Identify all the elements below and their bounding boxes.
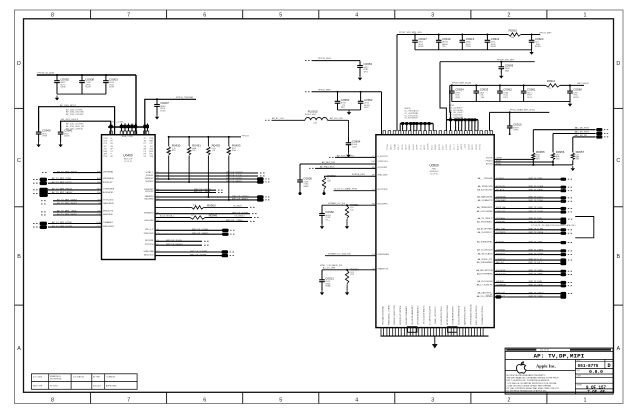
svg-text:B: B [17, 254, 21, 260]
svg-text:AA_0AAVLSKM1: AA_0AAVLSKM1 [477, 196, 493, 199]
svg-text:K6XG9: K6XG9 [486, 158, 493, 160]
wire second cap bank bus [450, 84, 546, 86]
resistor R0950 [322, 174, 336, 189]
svg-text:TPDCENRNC6SUU2B: TPDCENRNC6SUU2B [470, 304, 472, 325]
U0400 top pin comb bus [108, 122, 149, 135]
wire U0400 left pin row 2 [33, 177, 114, 180]
wire U0900 left row 6 with C0950 R0951 [322, 204, 376, 206]
wire cap bank bottom bus [57, 93, 106, 95]
capacitor C0908 [79, 75, 94, 94]
svg-text:MIPI_TX_DRH6: MIPI_TX_DRH6 [529, 250, 544, 252]
svg-text:F168H0P08G7TFXG: F168H0P08G7TFXG [441, 306, 443, 325]
svg-text:MIPI_TX_DNB9: MIPI_TX_DNB9 [529, 296, 544, 298]
svg-text:KM0BK43: KM0BK43 [496, 253, 506, 255]
svg-text:KNMVMHB9: KNMVMHB9 [378, 254, 390, 256]
svg-text:6C4_U: 6C4_U [398, 144, 400, 150]
resistor R0940 [190, 214, 217, 220]
wire U0900 right termination row y=271.3 [476, 269, 572, 273]
svg-text:CPP8: CPP8 [466, 46, 471, 48]
svg-text:_ER: _ER [211, 150, 216, 152]
capacitor C0903 [103, 75, 118, 94]
svg-text:MIPI_DP__4N9S: MIPI_DP__4N9S [194, 191, 210, 193]
svg-text:C: C [616, 158, 620, 164]
svg-text:AP_TO_MIPI_KG30N: AP_TO_MIPI_KG30N [52, 225, 73, 228]
Apple logo [517, 362, 526, 373]
wire U0400 right row D [145, 229, 234, 232]
svg-text:MIPI_DP_6EFET: MIPI_DP_6EFET [232, 199, 249, 201]
wire PP1V8 top-left bus [37, 74, 136, 76]
svg-text:PP1V2: PP1V2 [242, 135, 250, 137]
svg-text:BY THE: BY THE [93, 377, 100, 379]
svg-text:AC8G0PE1: AC8G0PE1 [103, 191, 114, 194]
svg-text:AA_SGMN49TA1: AA_SGMN49TA1 [477, 240, 493, 243]
wire U0400 right row F [145, 240, 209, 242]
svg-text:L2LRBL4X9NRRA85: L2LRBL4X9NRRA85 [405, 305, 408, 325]
svg-text:CGSFDM0B: CGSFDM0B [103, 189, 115, 191]
svg-text:2X79UR7: 2X79UR7 [145, 191, 155, 193]
wire bus drop to comb [396, 35, 398, 132]
svg-text:C0962: C0962 [503, 88, 512, 92]
svg-text:AP_TO_MIPI_7XFKL: AP_TO_MIPI_7XFKL [52, 177, 73, 180]
svg-text:8: 8 [51, 13, 54, 19]
wire top cap bank bottom bus [415, 49, 532, 51]
wire vertical R0956 net [552, 134, 554, 153]
svg-text:3ULSS: 3ULSS [446, 144, 448, 150]
wire C0909 drop [440, 62, 446, 120]
svg-text:64PSP4C: 64PSP4C [145, 178, 154, 180]
svg-text:AP_DET_1V8: AP_DET_1V8 [322, 161, 336, 164]
svg-text:1C6K: 1C6K [352, 146, 357, 148]
svg-text:HGKB5DU: HGKB5DU [144, 212, 154, 214]
svg-text:MIPI_TX_D_61: MIPI_TX_D_61 [529, 259, 544, 261]
svg-text:VT6: VT6 [193, 205, 196, 207]
wire U0400 left pin row 6 [41, 199, 114, 202]
svg-text:PL0910: PL0910 [308, 110, 318, 114]
svg-text:K143L: K143L [431, 145, 433, 150]
svg-text:(1 OF 3): (1 OF 3) [430, 173, 438, 175]
svg-text:PP1V8_S2_AON: PP1V8_S2_AON [38, 72, 55, 75]
connector pad blob rows 4-5 [39, 188, 47, 197]
wire U0400 left pin row 10 [33, 221, 114, 224]
svg-text:ICT STATUS: ICT STATUS [73, 376, 84, 379]
svg-text:0CUGP5F: 0CUGP5F [496, 270, 506, 272]
svg-text:C0905: C0905 [303, 177, 312, 181]
U0900 top pin boxes [383, 131, 493, 135]
op IC U0400 body [102, 135, 156, 260]
capacitor C0951 [335, 92, 350, 110]
svg-text:7R8: 7R8 [150, 156, 153, 158]
svg-text:GSHFHHE: GSHFHHE [496, 285, 506, 287]
svg-text:L48UCGT: L48UCGT [496, 211, 506, 213]
svg-text:AA_BL24P7NMS: AA_BL24P7NMS [477, 228, 493, 231]
svg-text:PP1V8_S2R_MIPI: PP1V8_S2R_MIPI [497, 59, 515, 61]
wire U0400 left pin row 5 [48, 191, 114, 194]
svg-text:MIPI_TX_DK4K: MIPI_TX_DK4K [529, 285, 544, 287]
svg-text:AA_RT3SFHERS: AA_RT3SFHERS [477, 272, 493, 275]
svg-text:TSTTLCED: TSTTLCED [103, 200, 114, 202]
svg-text:APPROVED: APPROVED [106, 384, 117, 387]
svg-text:9A65: 9A65 [505, 69, 509, 72]
svg-text:CT_2L: CT_2L [420, 145, 422, 150]
svg-text:UK9D3: UK9D3 [476, 144, 478, 150]
svg-text:7EAC149K: 7EAC149K [378, 174, 389, 177]
svg-text:PP3V0_TRISTAR: PP3V0_TRISTAR [176, 96, 194, 99]
connector pad left row y=227.1 [40, 225, 47, 229]
svg-text:CFMV: CFMV [513, 130, 519, 132]
svg-text:PR4UG: PR4UG [486, 160, 493, 162]
revision table [32, 374, 138, 390]
svg-text:UXGPKH6: UXGPKH6 [496, 197, 506, 199]
wire MIPI row to pad 3 [573, 136, 596, 138]
svg-text:A: A [17, 346, 21, 352]
svg-text:G79341EP: G79341EP [378, 167, 388, 169]
svg-text:TUHVHAR: TUHVHAR [496, 199, 506, 202]
svg-text:BR3: BR3 [576, 159, 580, 161]
svg-text:9 OF 157: 9 OF 157 [586, 386, 607, 390]
svg-text:EVDX: EVDX [160, 110, 166, 112]
svg-text:7: 7 [127, 13, 130, 19]
svg-text:NHT99: NHT99 [480, 144, 482, 150]
legal notice paragraph [507, 374, 560, 393]
connector pad left row y=223.5 [40, 222, 47, 226]
svg-text:KH2R_NH: KH2R_NH [496, 207, 506, 209]
svg-text:AA_L9_XGMCPK: AA_L9_XGMCPK [477, 284, 493, 287]
svg-text:PP1V2_S2R_MIPI_VDD: PP1V2_S2R_MIPI_VDD [399, 32, 422, 34]
svg-text:SNT EPROM: SNT EPROM [50, 378, 62, 380]
svg-text:CZ_DV_LC_WAKE_HOST: CZ_DV_LC_WAKE_HOST [334, 188, 359, 191]
pull resistor R0430 net [168, 136, 170, 138]
ground [569, 102, 571, 104]
svg-text:AP_TO_MIPI_5HVV5: AP_TO_MIPI_5HVV5 [57, 213, 78, 216]
ground [572, 166, 574, 168]
svg-text:C0903: C0903 [109, 77, 118, 81]
svg-text:AA_E1KU1R35D: AA_E1KU1R35D [477, 188, 493, 191]
svg-text:MU0LUCD: MU0LUCD [144, 254, 154, 256]
svg-text:RUMG: RUMG [535, 46, 541, 48]
svg-text:9VC2U: 9VC2U [402, 144, 404, 150]
svg-text:PSMC2HR: PSMC2HR [144, 233, 154, 235]
svg-text:BC27P8U2: BC27P8U2 [378, 189, 389, 191]
svg-text:1ST8P: 1ST8P [417, 144, 419, 150]
svg-text:2: 2 [507, 13, 510, 19]
svg-text:4: 4 [355, 13, 358, 19]
U0900 top comb 1 net label stack [404, 108, 420, 120]
resistor R0960 [192, 203, 216, 209]
pull resistor R0432 net [207, 136, 209, 138]
resistor R0957 [571, 150, 584, 161]
svg-text:MIPI_DP__CSM0: MIPI_DP__CSM0 [226, 220, 243, 222]
wire AP to C0907 branch [145, 99, 196, 134]
wire PL0910 to C0954 [327, 119, 348, 121]
wire U0400 right row DP_ML3 [144, 198, 269, 201]
svg-text:SPKAMP_I2C_SDA_TBC: SPKAMP_I2C_SDA_TBC [328, 252, 351, 255]
svg-text:BGA_CONN: BGA_CONN [122, 135, 133, 138]
wire R0957 tail [572, 160, 574, 165]
svg-text:264_HC7N: 264_HC7N [540, 350, 550, 352]
svg-text:C: C [17, 158, 21, 164]
svg-text:HM: HM [372, 161, 375, 163]
svg-text:BTK2D: BTK2D [439, 144, 441, 150]
svg-text:R0956: R0956 [556, 150, 565, 154]
svg-text:TN4AA6KT: TN4AA6KT [103, 221, 114, 224]
svg-text:C0934: C0934 [455, 88, 464, 92]
svg-text:5L1RLXHRP2NSUSF: 5L1RLXHRP2NSUSF [459, 305, 461, 325]
pull resistor R0433 net [228, 136, 230, 138]
resistor R0955 [532, 150, 545, 161]
svg-text:PP3V0_MIPI: PP3V0_MIPI [318, 89, 331, 91]
wire U0900 left row 7 [325, 255, 376, 257]
capacitor C0954 [346, 138, 361, 158]
wire U0900 left row 5 [334, 190, 376, 192]
svg-text:9S61E07: 9S61E07 [145, 181, 154, 183]
wire U0400 left pin row 1 [42, 170, 114, 173]
resistor R0951 [345, 203, 359, 219]
wire U0900 right row A [494, 158, 533, 160]
svg-text:DNXB: DNXB [60, 87, 66, 89]
resistor R0910 [508, 28, 521, 39]
svg-text:MIPI_DP_RUPMR: MIPI_DP_RUPMR [190, 251, 208, 253]
svg-text:VN0XME38: VN0XME38 [103, 178, 114, 180]
svg-text:GC0EM: GC0EM [428, 143, 430, 150]
wire U0400 right row via R0960 [155, 206, 192, 208]
svg-text:R0957: R0957 [576, 150, 585, 154]
svg-text:8: 8 [51, 397, 54, 403]
junction node C0907 [156, 98, 158, 100]
wire U0900 right termination row y=201.3 [478, 199, 572, 203]
wire U0400 left pin row 9 [41, 213, 114, 216]
wire MIPI row to pad 1 [533, 129, 595, 131]
svg-text:PP1V2_MIPI: PP1V2_MIPI [539, 32, 551, 34]
svg-text:C0908: C0908 [85, 77, 94, 81]
svg-text:1 ITS WHOLE OR PARTIAL REPRODU: 1 ITS WHOLE OR PARTIAL REPRODUCTION PROH… [507, 382, 558, 385]
wire U0900 right termination row y=229.8 [477, 228, 572, 232]
svg-text:BS9: BS9 [97, 182, 101, 184]
svg-text:_VEF: _VEF [479, 97, 486, 99]
wire U0400 right row H [143, 250, 233, 254]
svg-text:COMMON: COMMON [106, 377, 115, 379]
svg-text:AP_TO_MIPI__A5UL: AP_TO_MIPI__A5UL [57, 210, 78, 213]
svg-text:AAC_MC_INT: AAC_MC_INT [575, 134, 588, 137]
svg-text:V752B27MDP0SV81: V752B27MDP0SV81 [453, 305, 455, 325]
svg-text:MIPI_DP_7SERD: MIPI_DP_7SERD [192, 233, 209, 235]
capacitor C0915 [460, 35, 475, 50]
svg-text:0ERB3BF: 0ERB3BF [496, 221, 506, 223]
svg-text:AP_TO_MIPI_KN0NT: AP_TO_MIPI_KN0NT [57, 199, 78, 202]
svg-text:Apple Inc.: Apple Inc. [536, 363, 556, 368]
capacitor C0950 [319, 205, 334, 229]
svg-text:MIPI_VDDR: MIPI_VDDR [577, 83, 589, 85]
wire U0900 left row 3 [315, 167, 376, 169]
wire I2S bus lower [61, 121, 111, 135]
svg-text:__GCX: __GCX [465, 143, 467, 151]
svg-text:R0910: R0910 [509, 28, 518, 32]
wire U0400 right row DP_AUX1 [146, 171, 265, 174]
svg-text:6: 6 [203, 397, 206, 403]
svg-text:MIPI_TX_D0MN: MIPI_TX_D0MN [529, 253, 544, 255]
svg-text:AP_CLK_32K: AP_CLK_32K [330, 117, 343, 120]
svg-text:AC14_R015A_1: AC14_R015A_1 [160, 215, 175, 218]
wire U0900 right row B [494, 161, 553, 163]
pull resistor R0431 net [188, 136, 190, 138]
svg-text:MIPI_DP_ESH4D: MIPI_DP_ESH4D [166, 244, 183, 246]
capacitor C0907 [154, 99, 169, 119]
svg-text:C0940: C0940 [42, 129, 51, 133]
svg-text:B1EC_4M54UCB5U9: B1EC_4M54UCB5U9 [476, 305, 478, 325]
svg-text:P7SVB: P7SVB [387, 143, 389, 150]
svg-text:1SR: 1SR [556, 159, 560, 161]
svg-text:MIPI_DP_2L6D9: MIPI_DP_2L6D9 [166, 240, 182, 242]
ground [346, 284, 348, 290]
svg-text:AA_D57LLKXKN: AA_D57LLKXKN [477, 280, 493, 283]
svg-text:5: 5 [279, 397, 282, 403]
svg-text:1A1V2: 1A1V2 [390, 145, 393, 150]
svg-text:H06658G6: H06658G6 [103, 214, 114, 216]
wire U0900 right termination row y=285.8 [477, 284, 572, 288]
svg-text:C0923: C0923 [535, 37, 544, 41]
svg-text:UT9M: UT9M [42, 136, 48, 138]
svg-text:1FCG: 1FCG [527, 97, 533, 99]
svg-text:C44TK: C44TK [406, 144, 408, 150]
svg-text:MIPI_TX_DBGA: MIPI_TX_DBGA [529, 220, 544, 223]
svg-text:R0960: R0960 [207, 203, 216, 207]
svg-text:3: 3 [431, 13, 434, 19]
U0900 top pin comb 2 [446, 118, 478, 131]
svg-text:UAGUNE3V: UAGUNE3V [103, 202, 115, 205]
ground [348, 110, 350, 112]
svg-text:AA_1859SCV5B: AA_1859SCV5B [478, 185, 493, 188]
svg-text:AA_3M_KLA450: AA_3M_KLA450 [478, 252, 494, 255]
svg-text:CDUR: CDUR [64, 136, 70, 138]
capacitor C0909 [499, 62, 514, 79]
svg-text:45GH4: 45GH4 [413, 144, 415, 150]
ground [56, 96, 58, 98]
svg-text:X00_X01: X00_X01 [93, 385, 101, 387]
wire vertical R0957 net [572, 137, 574, 152]
svg-text:R0433: R0433 [232, 144, 241, 148]
svg-text:C0910: C0910 [513, 123, 522, 127]
wire I2S bus upper [39, 107, 115, 135]
svg-text:R0955: R0955 [536, 150, 545, 154]
wire U0400 right long row [144, 212, 257, 214]
svg-text:PP1V8_SDIO: PP1V8_SDIO [318, 58, 332, 60]
svg-text:MIPI_DP_SS3AP: MIPI_DP_SS3AP [190, 253, 207, 256]
svg-text:6N1GP4PGAR9FRD7: 6N1GP4PGAR9FRD7 [411, 304, 414, 325]
svg-text:FA6_4L7: FA6_4L7 [496, 261, 505, 264]
U0900 left pin name texts [372, 156, 390, 270]
svg-text:6C8KH: 6C8KH [409, 144, 411, 150]
svg-text:0XEAT: 0XEAT [434, 144, 437, 150]
svg-text:AER: AER [97, 177, 102, 180]
svg-text:C0933: C0933 [480, 88, 489, 92]
inductor PL0910 [305, 110, 327, 125]
svg-text:DCK0CGD: DCK0CGD [496, 273, 506, 275]
wire U0900 right termination row y=282.5 [477, 280, 572, 284]
svg-text:MIPI_DP_5D9VB: MIPI_DP_5D9VB [232, 212, 249, 214]
resistor R0431 [187, 144, 201, 155]
svg-text:AP_TST_CLKOUT: AP_TST_CLKOUT [337, 154, 355, 157]
U0400 interior pin name columns [104, 135, 154, 158]
U0900 interior top pin numbers [387, 143, 482, 151]
svg-text:AA___7U8SSH6: AA___7U8SSH6 [478, 177, 494, 180]
svg-text:5B011: 5B011 [424, 145, 426, 150]
svg-text:R0921: R0921 [350, 267, 359, 271]
svg-text:CKCNR9D: CKCNR9D [496, 232, 506, 234]
wire U0400 left pin row 8 [41, 210, 114, 213]
svg-text:AA0TSHS5057S7F6: AA0TSHS5057S7F6 [463, 306, 466, 325]
wire U0400 right row I [144, 253, 234, 257]
ground [531, 50, 533, 52]
svg-text:MIPI_TX_DDHE: MIPI_TX_DDHE [529, 186, 544, 188]
svg-text:HGU: HGU [97, 222, 102, 224]
svg-text:7 OF 48: 7 OF 48 [587, 391, 605, 395]
svg-text:UA8S5F0: UA8S5F0 [145, 195, 155, 198]
svg-text:D: D [17, 61, 21, 67]
resistor R0956 [551, 150, 564, 161]
svg-text:C0914: C0914 [491, 37, 500, 41]
svg-text:A59: A59 [191, 214, 194, 217]
wire C095x ground bus [338, 109, 361, 111]
svg-text:U0UG3KS: U0UG3KS [144, 220, 154, 222]
svg-text:5E312NE: 5E312NE [145, 240, 154, 242]
svg-text:R0940: R0940 [209, 214, 218, 218]
svg-text:U1: U1 [372, 268, 374, 270]
U0900 bottom pin comb [381, 328, 489, 337]
svg-text:38KUN_FN: 38KUN_FN [103, 211, 114, 213]
svg-text:CPX9NS5FEABVE16: CPX9NS5FEABVE16 [417, 305, 420, 325]
resistor R0430 [167, 144, 181, 155]
wire U0400 right row via R0940 [155, 217, 190, 219]
svg-text:AP_TO_MIPI_3RN29: AP_TO_MIPI_3RN29 [57, 170, 78, 173]
wire U0400 left pin row 7 [41, 202, 115, 205]
svg-text:7: 7 [127, 397, 130, 403]
capacitor C0941 [58, 129, 73, 148]
svg-text:PKM5: PKM5 [496, 163, 501, 165]
svg-text:UM1: UM1 [97, 214, 101, 216]
wire U0900 right termination row y=263.5 [477, 261, 561, 264]
svg-text:051-8775: 051-8775 [578, 364, 599, 369]
svg-text:MIPI_TX_D1RC: MIPI_TX_D1RC [529, 207, 544, 209]
svg-text:ICT CODE: ICT CODE [33, 377, 43, 379]
svg-text:AP_TO_MIPI_DAXEV: AP_TO_MIPI_DAXEV [52, 191, 73, 194]
svg-text:_PCX0_N4UFENLFU: _PCX0_N4UFENLFU [424, 305, 426, 326]
svg-text:E75 NOTE: 2/3 LANE FOR HIGH-RA: E75 NOTE: 2/3 LANE FOR HIGH-RATE DATA ON… [531, 224, 576, 227]
svg-text:D6P2VE1VC1FP3KR: D6P2VE1VC1FP3KR [400, 305, 402, 325]
wire U0400 right row C [144, 220, 254, 222]
svg-text:5GL: 5GL [350, 209, 354, 211]
svg-text:AA_V5GPN57L7: AA_V5GPN57L7 [477, 231, 493, 234]
capacitor C0940 [36, 129, 51, 148]
wire U0900 right termination row y=179.2 [478, 177, 572, 181]
wire C0909 net [440, 61, 535, 63]
svg-text:5: 5 [279, 13, 282, 19]
ground [434, 336, 436, 344]
svg-text:(2 OF 3): (2 OF 3) [124, 161, 132, 163]
svg-text:C0909: C0909 [505, 63, 514, 67]
wire C0910 net [490, 111, 550, 113]
svg-text:NOTICE OF PROPRIETARY PROPERTY: NOTICE OF PROPRIETARY PROPERTY: [507, 374, 546, 377]
svg-text:D: D [616, 61, 620, 67]
svg-text:ERNP: ERNP [418, 46, 424, 48]
svg-text:MEBGKB041_G7A7M: MEBGKB041_G7A7M [387, 305, 390, 325]
svg-text:5FK5: 5FK5 [363, 71, 368, 73]
svg-text:AA_PS939M4DC: AA_PS939M4DC [477, 220, 493, 223]
svg-text:AP_PMU_RST: AP_PMU_RST [320, 165, 335, 168]
svg-text:R0430: R0430 [172, 144, 181, 148]
svg-text:AA_35E0HM8MS: AA_35E0HM8MS [477, 261, 493, 264]
svg-text:AAC_MC_RST2: AAC_MC_RST2 [575, 131, 590, 134]
svg-text:3G2TL: 3G2TL [443, 145, 445, 151]
ground dot C0905 [299, 192, 302, 195]
